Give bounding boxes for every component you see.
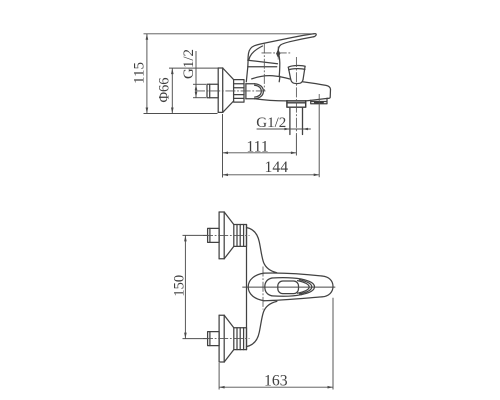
svg-text:150: 150 — [171, 275, 187, 297]
svg-text:G1/2: G1/2 — [181, 49, 197, 79]
svg-text:144: 144 — [265, 159, 289, 176]
svg-text:115: 115 — [132, 62, 148, 84]
svg-text:Φ66: Φ66 — [157, 77, 173, 102]
svg-text:111: 111 — [246, 138, 268, 155]
svg-text:G1/2: G1/2 — [256, 115, 286, 131]
svg-text:163: 163 — [264, 373, 288, 390]
